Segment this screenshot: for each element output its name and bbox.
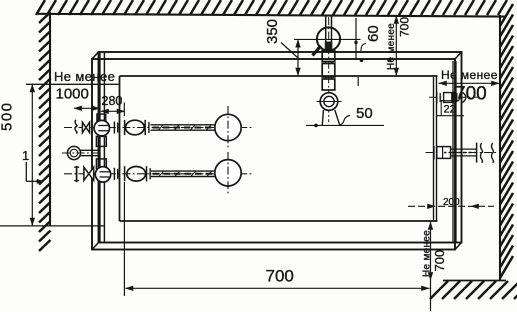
svg-text:60: 60 (365, 25, 382, 42)
svg-text:22: 22 (444, 104, 456, 116)
svg-text:700: 700 (398, 17, 412, 37)
svg-text:500: 500 (0, 101, 16, 131)
svg-text:Не менее: Не менее (441, 68, 498, 82)
svg-text:700: 700 (455, 84, 487, 105)
svg-text:50: 50 (356, 105, 373, 122)
svg-text:Не менее: Не менее (386, 23, 397, 70)
svg-text:1000: 1000 (56, 86, 89, 103)
svg-text:350: 350 (264, 19, 281, 44)
svg-text:Не менее: Не менее (54, 69, 115, 84)
svg-text:280: 280 (102, 94, 123, 108)
svg-text:200: 200 (443, 197, 460, 208)
svg-text:700: 700 (432, 250, 447, 272)
svg-text:1: 1 (22, 148, 29, 163)
svg-text:700: 700 (266, 267, 294, 286)
svg-text:Не менее: Не менее (422, 230, 433, 277)
